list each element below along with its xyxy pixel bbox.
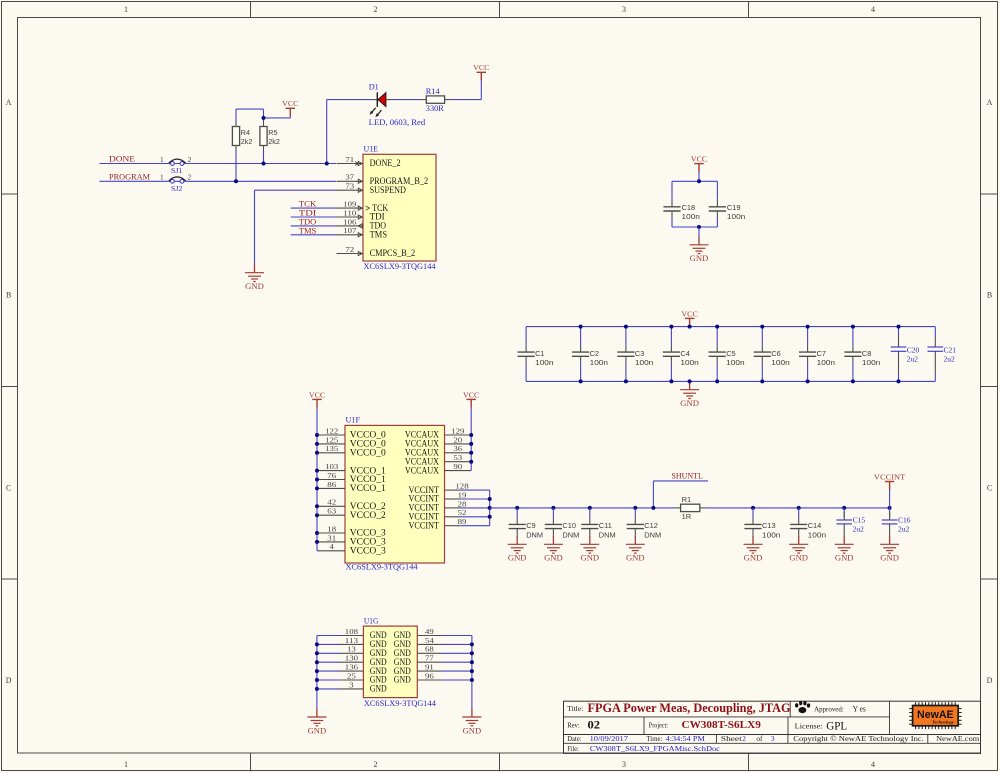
wire to GND <box>698 227 700 238</box>
svg-text:122: 122 <box>325 426 338 435</box>
svg-text:GND: GND <box>370 684 387 694</box>
capacitor C11 <box>581 517 615 539</box>
svg-text:Title:: Title: <box>567 704 583 713</box>
svg-text:SJ1: SJ1 <box>171 166 182 175</box>
pin 136 GND <box>340 663 388 676</box>
svg-text:GND: GND <box>880 553 899 563</box>
svg-text:90: 90 <box>453 462 462 471</box>
capacitor C7 <box>799 345 835 367</box>
svg-text:of: of <box>756 734 763 743</box>
wire C18-C19 top <box>672 180 717 182</box>
svg-text:GND: GND <box>626 553 645 563</box>
svg-text:XC6SLX9-3TQG144: XC6SLX9-3TQG144 <box>364 262 437 271</box>
wire <box>625 363 627 381</box>
wire VCCINT rail <box>489 490 491 526</box>
wire <box>752 508 754 518</box>
title text <box>567 701 790 715</box>
svg-text:37: 37 <box>345 173 354 182</box>
svg-text:103: 103 <box>325 462 338 471</box>
wire <box>634 536 636 538</box>
junction <box>806 325 810 329</box>
svg-text:28: 28 <box>458 499 467 508</box>
junction <box>588 506 592 510</box>
junction <box>234 179 238 183</box>
svg-text:100n: 100n <box>680 358 698 367</box>
pin 122 VCCO_0 <box>319 426 387 440</box>
svg-text:CW308T-S6LX9: CW308T-S6LX9 <box>682 720 761 731</box>
junction <box>633 506 637 510</box>
junction <box>315 678 319 682</box>
pin 4 VCCO_3 <box>319 542 387 556</box>
svg-text:VCCINT: VCCINT <box>874 472 906 481</box>
junction <box>315 540 319 544</box>
wire <box>716 327 718 346</box>
pin 37 PROGRAM_B_2 <box>337 173 429 187</box>
svg-text:100n: 100n <box>762 530 780 539</box>
pin 52 VCCINT <box>409 508 467 522</box>
IC U1G (FPGA ground bank, XC6SLX9-3TQG144) <box>363 617 436 708</box>
svg-text:2u2: 2u2 <box>853 525 865 534</box>
svg-text:02: 02 <box>588 719 601 731</box>
svg-text:100n: 100n <box>726 358 744 367</box>
svg-text:VCCO_0: VCCO_0 <box>350 449 386 459</box>
svg-text:VCCINT: VCCINT <box>409 521 440 531</box>
pin 53 VCCAUX <box>405 453 471 467</box>
svg-text:330R: 330R <box>426 104 444 113</box>
pin 54 GND <box>394 636 442 649</box>
svg-text:25: 25 <box>347 671 356 680</box>
junction <box>470 642 474 646</box>
junction <box>760 379 764 383</box>
wire <box>752 536 754 538</box>
junction <box>470 651 474 655</box>
wire <box>317 661 340 663</box>
svg-text:C11: C11 <box>599 521 612 530</box>
capacitor C19 <box>709 200 746 221</box>
svg-text:2k2: 2k2 <box>268 137 280 146</box>
svg-text:VCC: VCC <box>681 309 697 318</box>
svg-text:U1E: U1E <box>364 145 379 154</box>
svg-text:D: D <box>6 676 12 685</box>
svg-text:C13: C13 <box>762 521 776 530</box>
svg-text:1: 1 <box>160 155 164 164</box>
wire <box>798 536 800 538</box>
LED D1 <box>369 83 426 128</box>
ground <box>626 536 645 563</box>
svg-text:R14: R14 <box>426 87 441 96</box>
svg-text:Y es: Y es <box>853 705 866 714</box>
junction <box>315 478 319 482</box>
capacitor C10 <box>545 517 579 539</box>
wire <box>442 652 472 654</box>
svg-text:DNM: DNM <box>562 530 579 539</box>
pin 90 VCCAUX <box>405 462 471 476</box>
title block <box>564 701 981 753</box>
svg-text:C6: C6 <box>771 349 780 358</box>
wire <box>852 327 854 346</box>
svg-text:18: 18 <box>327 524 336 533</box>
svg-text:D: D <box>987 676 993 685</box>
svg-text:3: 3 <box>771 734 775 743</box>
capacitor C13 <box>744 517 780 539</box>
pin 103 VCCO_1 <box>319 462 387 476</box>
wire <box>589 536 591 538</box>
svg-text:100n: 100n <box>727 212 745 221</box>
svg-text:B: B <box>6 291 11 300</box>
wire VCC stem <box>698 172 700 182</box>
svg-text:CMPCS_B_2: CMPCS_B_2 <box>370 249 416 259</box>
wire <box>317 652 340 654</box>
wire VCC bus top <box>526 326 935 328</box>
svg-text:License:: License: <box>795 722 823 731</box>
svg-text:VCC: VCC <box>309 390 325 399</box>
wire <box>442 643 472 645</box>
pin 3 GND <box>340 680 388 693</box>
svg-text:SHUNTL: SHUNTL <box>672 472 703 481</box>
wire GND bus bottom <box>526 380 935 382</box>
svg-text:2u2: 2u2 <box>907 355 919 364</box>
wire <box>625 327 627 346</box>
svg-text:13: 13 <box>347 645 356 654</box>
wire <box>461 489 490 491</box>
junction <box>551 506 555 510</box>
wire LED to R14 <box>392 99 421 101</box>
svg-text:72: 72 <box>345 245 354 254</box>
svg-text:96: 96 <box>425 671 434 680</box>
svg-text:31: 31 <box>327 533 336 542</box>
svg-text:3: 3 <box>349 680 354 689</box>
svg-text:U1G: U1G <box>364 617 379 626</box>
junction <box>470 678 474 682</box>
svg-text:109: 109 <box>343 200 356 209</box>
wire SUSPEND to GND <box>255 190 337 264</box>
svg-text:2k2: 2k2 <box>241 137 253 146</box>
ground <box>690 237 709 264</box>
junction <box>315 513 319 517</box>
svg-text:77: 77 <box>425 654 434 663</box>
svg-text:B: B <box>987 291 992 300</box>
wire <box>807 363 809 381</box>
junction <box>315 442 319 446</box>
wire TCK net <box>291 207 337 209</box>
wire PROGRAM net <box>100 180 337 182</box>
wire <box>552 508 554 518</box>
svg-text:DNM: DNM <box>526 530 543 539</box>
svg-text:NewAE.com: NewAE.com <box>936 734 979 743</box>
wire <box>461 516 490 518</box>
ground <box>245 265 264 292</box>
svg-text:100n: 100n <box>535 358 553 367</box>
pin 31 VCCO_3 <box>319 533 387 547</box>
svg-text:DNM: DNM <box>644 530 661 539</box>
svg-text:VCC: VCC <box>473 63 489 72</box>
ground <box>880 536 899 563</box>
svg-text:100n: 100n <box>771 358 789 367</box>
ground <box>307 709 326 736</box>
date/time/sheet row <box>567 734 775 743</box>
svg-text:C5: C5 <box>726 349 735 358</box>
svg-text:2: 2 <box>374 5 378 14</box>
wire C19 bottom <box>716 218 718 227</box>
junction <box>469 451 473 455</box>
wire <box>317 679 340 681</box>
svg-text:File:: File: <box>567 744 579 753</box>
junction <box>851 325 855 329</box>
IC U1F (FPGA power bank, XC6SLX9-3TQG144) <box>345 416 445 572</box>
svg-text:106: 106 <box>343 217 356 226</box>
junction <box>315 469 319 473</box>
ground <box>580 536 599 563</box>
svg-text:68: 68 <box>425 645 434 654</box>
svg-text:TDO: TDO <box>299 217 317 226</box>
svg-text:100n: 100n <box>682 212 700 221</box>
svg-text:Time:: Time: <box>646 734 662 743</box>
svg-text:86: 86 <box>327 480 336 489</box>
junction <box>488 515 492 519</box>
junction <box>897 325 901 329</box>
ground <box>789 536 808 563</box>
power VCCINT <box>874 472 906 489</box>
wire <box>442 679 472 681</box>
svg-text:R5: R5 <box>268 128 277 137</box>
junction <box>897 379 901 383</box>
pin 18 VCCO_3 <box>319 524 387 538</box>
power VCC <box>463 390 479 407</box>
junction <box>624 325 628 329</box>
svg-text:20: 20 <box>453 435 462 444</box>
ground <box>680 382 699 409</box>
wire <box>461 498 490 500</box>
power VCC <box>309 390 325 407</box>
ground <box>462 709 481 736</box>
junction <box>262 162 266 166</box>
resistor R1 <box>675 495 706 521</box>
svg-text:C18: C18 <box>682 203 696 212</box>
junction <box>688 325 692 329</box>
NewAE chip logo <box>909 702 961 729</box>
junction <box>315 486 319 490</box>
svg-text:54: 54 <box>425 636 434 645</box>
wire to C19 <box>716 181 718 200</box>
svg-text:DONE_2: DONE_2 <box>370 159 401 169</box>
svg-text:107: 107 <box>343 226 356 235</box>
svg-text:R4: R4 <box>241 128 250 137</box>
pin 36 VCCAUX <box>405 444 471 458</box>
wire VCC feed <box>264 117 291 118</box>
wire <box>317 688 340 690</box>
svg-text:GND: GND <box>680 398 699 408</box>
ground <box>744 536 763 563</box>
junction <box>488 497 492 501</box>
wire <box>761 363 763 381</box>
svg-text:125: 125 <box>325 435 338 444</box>
svg-text:XC6SLX9-3TQG144: XC6SLX9-3TQG144 <box>364 699 437 708</box>
capacitor C1 <box>518 345 554 367</box>
svg-text:VCCO_2: VCCO_2 <box>350 511 386 521</box>
svg-text:100n: 100n <box>590 358 608 367</box>
svg-text:DNM: DNM <box>599 530 616 539</box>
svg-text:73: 73 <box>345 182 354 191</box>
svg-text:2u2: 2u2 <box>898 525 910 534</box>
svg-text:VCC: VCC <box>463 390 479 399</box>
wire R14 to VCC <box>451 80 482 99</box>
wire <box>516 508 518 518</box>
power VCC <box>282 99 298 116</box>
pin 68 GND <box>394 645 442 658</box>
paw logo <box>795 701 810 713</box>
junction <box>806 379 810 383</box>
junction <box>325 162 329 166</box>
svg-text:C20: C20 <box>907 346 920 355</box>
wire R5 top <box>263 118 265 121</box>
svg-text:DONE: DONE <box>109 155 135 164</box>
svg-text:4:34:54 PM: 4:34:54 PM <box>666 734 706 743</box>
svg-text:C12: C12 <box>644 521 658 530</box>
project field <box>649 720 761 731</box>
wire <box>525 327 527 346</box>
capacitor C18 <box>663 200 700 221</box>
wire VCCINT stem <box>889 490 891 508</box>
rev field <box>567 719 600 731</box>
pin 73 SUSPEND <box>337 182 407 196</box>
svg-text:SUSPEND: SUSPEND <box>370 186 407 196</box>
junction <box>715 379 719 383</box>
svg-text:LED, 0603, Red: LED, 0603, Red <box>369 118 426 127</box>
wire <box>761 327 763 346</box>
junction <box>579 325 583 329</box>
wire R4-R5 top link <box>236 109 264 118</box>
junction <box>315 651 319 655</box>
wire R5 to DONE <box>263 151 265 163</box>
pin 42 VCCO_2 <box>319 498 387 512</box>
svg-text:42: 42 <box>327 498 336 507</box>
svg-text:GND: GND <box>744 553 763 563</box>
svg-text:4: 4 <box>871 760 875 769</box>
svg-text:108: 108 <box>345 627 358 636</box>
svg-text:Approved:: Approved: <box>814 704 844 713</box>
junction <box>888 506 892 510</box>
pin 125 VCCO_0 <box>319 435 387 449</box>
wire <box>634 508 636 518</box>
svg-text:2: 2 <box>188 173 192 182</box>
svg-text:C3: C3 <box>635 349 644 358</box>
svg-text:C15: C15 <box>853 516 866 525</box>
pin 129 VCCAUX <box>405 426 471 440</box>
resistor R5 <box>260 121 280 152</box>
wire <box>317 670 340 672</box>
wire <box>934 375 936 382</box>
wire SHUNTL stub <box>653 481 708 508</box>
svg-text:GND: GND <box>508 553 527 563</box>
capacitor C4 <box>663 345 699 367</box>
svg-text:PROGRAM: PROGRAM <box>109 172 151 181</box>
svg-text:GND: GND <box>463 725 482 735</box>
pin 106 TDO <box>337 217 387 231</box>
svg-text:1: 1 <box>124 760 128 769</box>
pin 96 GND <box>394 671 442 684</box>
svg-text:53: 53 <box>453 453 462 462</box>
wire <box>889 508 891 518</box>
junction <box>751 506 755 510</box>
junction <box>669 379 673 383</box>
pin 13 GND <box>340 645 388 658</box>
svg-text:10/09/2017: 10/09/2017 <box>590 734 629 743</box>
power VCC <box>473 63 489 80</box>
svg-text:Copyright © NewAE Technology I: Copyright © NewAE Technology Inc. <box>793 734 924 743</box>
junction <box>315 642 319 646</box>
svg-text:136: 136 <box>345 663 358 672</box>
file row <box>567 744 721 753</box>
svg-text:C2: C2 <box>590 349 599 358</box>
svg-text:100n: 100n <box>862 358 880 367</box>
svg-text:1: 1 <box>160 173 164 182</box>
wire R4 top <box>235 109 237 120</box>
junction <box>315 687 319 691</box>
svg-text:XC6SLX9-3TQG144: XC6SLX9-3TQG144 <box>346 563 419 572</box>
svg-text:130: 130 <box>345 654 358 663</box>
junction <box>760 325 764 329</box>
svg-text:36: 36 <box>453 444 462 453</box>
capacitor C21 <box>928 337 957 375</box>
wire <box>552 536 554 538</box>
pin 63 VCCO_2 <box>319 507 387 521</box>
wire <box>852 363 854 381</box>
capacitor C9 <box>509 517 543 539</box>
svg-text:C19: C19 <box>727 203 741 212</box>
copyright <box>793 734 979 743</box>
svg-text:VCC: VCC <box>691 155 707 164</box>
resistor R4 <box>232 121 252 152</box>
power VCC <box>681 309 697 326</box>
junction <box>697 225 701 229</box>
junction <box>797 506 801 510</box>
approved field <box>814 704 866 713</box>
wire VCCINT to R1 <box>490 507 675 509</box>
svg-text:A: A <box>987 98 993 107</box>
junction <box>697 179 701 183</box>
capacitor C12 <box>627 517 661 539</box>
wire DONE to LED <box>327 100 371 164</box>
svg-text:100n: 100n <box>635 358 653 367</box>
svg-text:C1: C1 <box>535 349 544 358</box>
capacitor C6 <box>754 345 790 367</box>
ground <box>544 536 563 563</box>
capacitor C14 <box>790 517 826 539</box>
wire <box>525 363 527 381</box>
svg-text:4: 4 <box>871 5 875 14</box>
svg-text:GPL: GPL <box>826 720 847 732</box>
wire <box>898 375 900 382</box>
svg-text:C7: C7 <box>817 349 826 358</box>
svg-text:U1F: U1F <box>346 416 361 425</box>
capacitor C3 <box>617 345 653 367</box>
wire R1 to VCCINT <box>706 507 890 509</box>
svg-text:TDI: TDI <box>299 209 317 218</box>
svg-text:Technology: Technology <box>932 720 955 725</box>
junction <box>315 451 319 455</box>
svg-text:2: 2 <box>188 155 192 164</box>
pin 135 VCCO_0 <box>319 444 387 458</box>
svg-text:63: 63 <box>327 507 336 516</box>
junction <box>315 660 319 664</box>
junction <box>715 325 719 329</box>
svg-text:FPGA Power Meas, Decoupling, J: FPGA Power Meas, Decoupling, JTAG <box>588 701 791 715</box>
capacitor C15 <box>836 512 865 537</box>
svg-text:89: 89 <box>458 517 467 526</box>
pin 110 TDI <box>337 208 385 222</box>
junction <box>469 460 473 464</box>
junction <box>315 531 319 535</box>
